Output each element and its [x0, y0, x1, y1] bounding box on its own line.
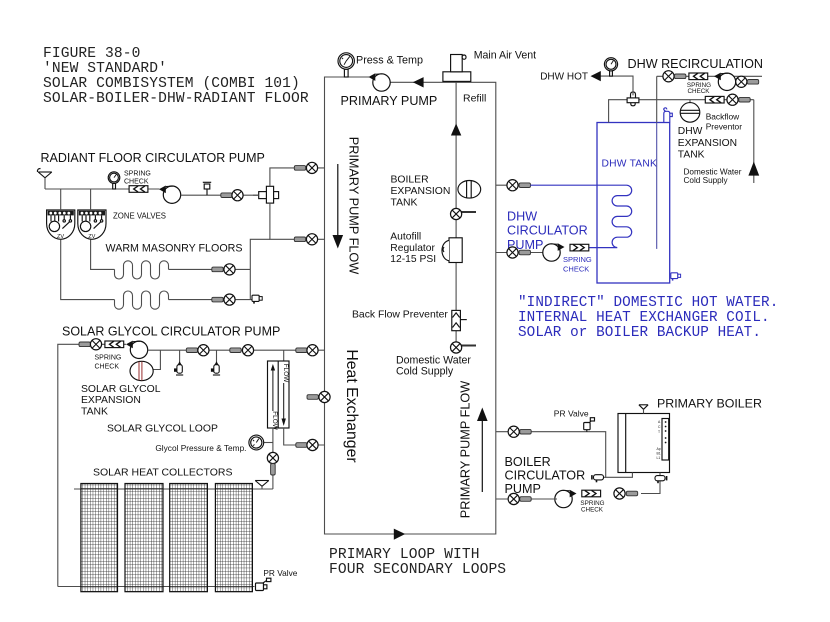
svg-text:EXPANSION: EXPANSION	[678, 138, 737, 149]
pump: solar glycol circulator pump	[126, 341, 148, 359]
valve: boiler supply valve at loop	[508, 426, 531, 437]
arrow: refill flow up	[451, 124, 461, 136]
drain valve at tank bottom (blue)	[671, 273, 681, 281]
svg-text:PRIMARY LOOP WITH: PRIMARY LOOP WITH	[329, 547, 480, 563]
pipe: DHW HOT branch	[601, 76, 634, 95]
pipe: drop to solar expansion tank	[153, 350, 160, 369]
pipe: boiler supply from loop	[496, 432, 633, 478]
boiler expansion tank	[458, 181, 481, 199]
tee fitting on DHW hot	[627, 92, 639, 106]
svg-text:FOUR SECONDARY LOOPS: FOUR SECONDARY LOOPS	[329, 562, 506, 578]
svg-text:DHW: DHW	[678, 126, 703, 137]
fitting: radiant junction union	[253, 186, 279, 203]
svg-text:Cold Supply: Cold Supply	[684, 176, 729, 185]
pump: primary pump U1	[369, 73, 391, 91]
valve: DHW return valve	[507, 247, 531, 258]
valve: domestic water cold supply valve on refill	[451, 342, 477, 353]
svg-text:SPRING: SPRING	[124, 171, 151, 178]
spring check valve (solar)	[105, 341, 124, 348]
svg-text:DHW HOT: DHW HOT	[540, 72, 588, 83]
spring check valve (radiant)	[129, 186, 148, 193]
svg-text:Press & Temp: Press & Temp	[356, 55, 423, 67]
valve: recirc valve 1	[663, 71, 686, 82]
svg-text:PRIMARY PUMP: PRIMARY PUMP	[341, 94, 438, 108]
valve: radiant supply port valve at loop	[294, 234, 317, 245]
valve: heat exchanger bottom valve	[296, 439, 318, 450]
pipe: solar pump outlet to loop	[148, 349, 325, 351]
solar collector panel 1	[81, 484, 118, 592]
svg-text:SOLAR GLYCOL: SOLAR GLYCOL	[81, 384, 161, 395]
label: BOILER EXPANSION TANK	[391, 174, 451, 208]
valve: solar suction valve	[79, 339, 102, 350]
svg-text:EXPANSION: EXPANSION	[391, 186, 451, 197]
svg-text:Refill: Refill	[463, 93, 486, 105]
coil: internal heat exchanger coil (blue)	[530, 185, 631, 247]
spring check valve (cold supply)	[705, 96, 724, 103]
union fitting on boiler return	[655, 476, 667, 484]
pipe: ZV1 down to coil 2	[61, 240, 115, 300]
svg-text:PR Valve: PR Valve	[554, 408, 589, 418]
air vent funnel at collectors	[255, 481, 269, 490]
pipe: radiant supply main line	[45, 188, 160, 190]
pipe: riser from junction up to loop port	[270, 168, 325, 186]
solar collector panel 2	[125, 484, 163, 592]
svg-text:PR Valve: PR Valve	[263, 568, 297, 578]
label: SPRING CHECK (recirc)	[687, 82, 711, 95]
label: DHW CIRCULATOR PUMP	[507, 210, 588, 252]
svg-text:SPRING: SPRING	[95, 355, 122, 362]
arrow: flow toward pump on top edge	[413, 77, 424, 87]
svg-text:BOILER: BOILER	[505, 455, 551, 469]
label: DHW EXPANSION TANK	[678, 126, 737, 160]
svg-text:FLOW: FLOW	[282, 364, 289, 383]
pipe: primary loop rectangle	[325, 77, 496, 534]
spring check valve (DHW)	[570, 244, 589, 251]
label: Domestic Water Cold Supply (refill)	[396, 355, 471, 378]
pipe: lower header to coil riser	[250, 239, 270, 299]
svg-text:B1: B1	[657, 452, 661, 456]
pipe: refill line	[455, 82, 457, 353]
svg-text:SPRING: SPRING	[563, 255, 592, 264]
svg-text:Regulator: Regulator	[390, 243, 435, 254]
label: Autofill Regulator 12-15 PSI	[390, 232, 436, 265]
pipe: flow meter down to collectors	[272, 428, 274, 489]
label: Backflow Preventor	[706, 112, 743, 132]
valve: collector isolation valve (vertical)	[267, 452, 278, 475]
pipe: coil 1 to valve	[169, 268, 251, 270]
valve: radiant outlet gate valve	[221, 190, 243, 201]
DHW expansion tank	[680, 100, 700, 123]
pipe: domestic cold supply riser	[753, 100, 755, 183]
svg-text:Backflow: Backflow	[706, 112, 740, 122]
gauge: glycol pressure & temp	[249, 435, 273, 450]
svg-text:PRIMARY PUMP FLOW: PRIMARY PUMP FLOW	[459, 381, 473, 518]
svg-text:T: T	[658, 430, 660, 434]
pipe: ZV2 down to coil 1	[91, 240, 115, 270]
valve: radiant return port valve at loop	[294, 162, 317, 173]
svg-text:CIRCULATOR: CIRCULATOR	[507, 224, 588, 238]
valve: coil 2 balancing valve	[212, 294, 235, 305]
svg-text:SOLAR HEAT COLLECTORS: SOLAR HEAT COLLECTORS	[93, 466, 232, 478]
pipe: recirculation drop into tank (dip tube)	[656, 76, 658, 122]
arrow: primary pump flow down	[333, 164, 344, 249]
valve: cold supply valve	[727, 94, 750, 105]
coil: warm masonry floor coil 1	[115, 261, 169, 279]
arrow: flow meter up arrow	[271, 364, 275, 411]
svg-text:TANK: TANK	[391, 197, 418, 208]
label: SPRING CHECK (radiant)	[124, 171, 151, 186]
svg-text:TANK: TANK	[678, 149, 705, 160]
valve: recirc valve 2	[736, 76, 759, 87]
coil: warm masonry floor coil 2	[115, 291, 169, 309]
PR valve at collectors	[256, 578, 271, 590]
valve: solar line valve 2	[230, 345, 254, 356]
arrow: flow on loop bottom edge	[394, 529, 405, 540]
label: BOILER CIRCULATOR PUMP	[505, 455, 586, 496]
pipe: coil 2 to valve and drain	[169, 299, 253, 301]
air vent funnel on radiant line	[37, 169, 51, 190]
svg-text:Preventor: Preventor	[706, 122, 743, 132]
svg-text:ZV: ZV	[57, 234, 64, 240]
PR valve on boiler supply	[584, 418, 595, 432]
svg-text:SOLAR GLYCOL LOOP: SOLAR GLYCOL LOOP	[107, 423, 218, 434]
pipe: boiler pump suction from loop	[496, 498, 557, 500]
solar collector panel 4	[215, 484, 252, 592]
valve: small lever valve on radiant outlet	[203, 182, 211, 195]
svg-text:SOLAR or BOILER BACKUP HEAT.: SOLAR or BOILER BACKUP HEAT.	[518, 325, 761, 341]
svg-text:PUMP: PUMP	[505, 482, 541, 496]
svg-text:SOLAR GLYCOL CIRCULATOR PUMP: SOLAR GLYCOL CIRCULATOR PUMP	[62, 324, 280, 338]
svg-text:EXPANSION: EXPANSION	[81, 395, 141, 406]
svg-text:BOILER: BOILER	[391, 174, 430, 185]
svg-text:TANK: TANK	[81, 407, 108, 418]
label: SPRING CHECK (boiler)	[580, 500, 604, 514]
autofill regulator symbol	[442, 238, 462, 263]
pipe: flow meter bottom to loop	[284, 428, 325, 445]
svg-text:CHECK: CHECK	[124, 178, 149, 185]
svg-text:WARM MASONRY FLOORS: WARM MASONRY FLOORS	[106, 242, 243, 254]
svg-text:PRIMARY BOILER: PRIMARY BOILER	[657, 396, 762, 410]
valve: refill isolation valve	[451, 208, 477, 219]
svg-text:CHECK: CHECK	[563, 265, 589, 274]
spring check valve (recirc)	[689, 73, 708, 80]
label: SOLAR GLYCOL EXPANSION TANK	[81, 384, 161, 418]
pump: radiant floor circulator pump	[159, 186, 181, 204]
caption: primary loop with four secondary loops	[329, 547, 506, 578]
svg-text:Heat Exchanger: Heat Exchanger	[343, 349, 360, 462]
valve: heat exchanger mid valve on loop edge	[307, 391, 330, 402]
pump: DHW circulator pump	[543, 243, 565, 261]
gauge: radiant spring check gauge	[108, 172, 120, 189]
pipe: recirculation line	[657, 75, 762, 77]
title: figure caption	[43, 46, 309, 107]
backflow preventer symbol on refill	[452, 310, 467, 330]
svg-text:'NEW STANDARD': 'NEW STANDARD'	[43, 61, 167, 77]
svg-text:Ap: Ap	[657, 447, 661, 451]
air vent funnel on boiler top	[639, 405, 648, 414]
svg-text:DHW TANK: DHW TANK	[602, 159, 658, 170]
svg-text:Glycol Pressure & Temp.: Glycol Pressure & Temp.	[155, 443, 246, 453]
solar glycol expansion tank	[130, 361, 153, 380]
arrow: primary pump flow up	[477, 408, 488, 493]
arrow: cold supply flow up	[748, 162, 759, 176]
pipe: tank top to DHW HOT header	[609, 100, 754, 123]
svg-text:DHW: DHW	[507, 210, 537, 224]
DHW tank body	[597, 123, 670, 284]
arrow: flow meter down arrow	[282, 383, 286, 426]
pipe: ZV2 top connection	[90, 189, 92, 210]
svg-text:CHECK: CHECK	[95, 364, 120, 371]
svg-text:FLOW: FLOW	[271, 411, 278, 430]
drain valve at coil 2 end	[252, 295, 262, 303]
boiler body	[618, 414, 670, 473]
valve: boiler pump suction valve	[508, 493, 531, 504]
gauge: DHW hot gauge	[604, 58, 617, 76]
flow meter body	[268, 361, 290, 428]
pipe: collectors bottom header	[58, 586, 255, 588]
pipe: boiler return to pump	[641, 473, 660, 494]
pump: boiler circulator pump	[555, 490, 577, 508]
pump: DHW recirculation pump	[714, 73, 736, 91]
valve: boiler return valve	[614, 488, 638, 499]
svg-text:SOLAR-BOILER-DHW-RADIANT FLOOR: SOLAR-BOILER-DHW-RADIANT FLOOR	[43, 91, 309, 107]
union fitting on boiler supply drain	[592, 475, 604, 483]
aquastat clip on tank top (blue)	[664, 108, 673, 123]
svg-text:RADIANT FLOOR CIRCULATOR PUMP: RADIANT FLOOR CIRCULATOR PUMP	[41, 151, 265, 165]
svg-text:ZONE VALVES: ZONE VALVES	[113, 212, 166, 221]
valve: solar line valve 1	[186, 345, 209, 356]
zone valve ZV2	[78, 210, 106, 240]
pipe: collectors top header	[74, 488, 273, 490]
pipe: junction down to lower header	[270, 203, 325, 239]
valve: DHW supply valve	[507, 180, 531, 191]
svg-text:CHECK: CHECK	[581, 506, 604, 513]
note: indirect domestic hot water (blue CAD)	[518, 295, 778, 341]
svg-text:Back Flow Preventer: Back Flow Preventer	[352, 310, 448, 321]
svg-text:"INDIRECT" DOMESTIC HOT WATER.: "INDIRECT" DOMESTIC HOT WATER.	[518, 295, 778, 311]
svg-text:L1: L1	[657, 456, 661, 460]
label: SPRING CHECK (DHW, blue)	[563, 255, 592, 274]
spring check valve (boiler)	[582, 490, 601, 497]
pipe: solar return riser (left)	[58, 344, 126, 586]
pipe: tee down to flow meter	[283, 350, 285, 361]
gauge: press & temp	[338, 53, 354, 77]
svg-text:PRIMARY PUMP FLOW: PRIMARY PUMP FLOW	[347, 137, 361, 274]
sensor well 1 on solar line	[174, 350, 183, 375]
label: SPRING CHECK (solar)	[95, 355, 122, 371]
svg-text:CIRCULATOR: CIRCULATOR	[505, 469, 586, 483]
svg-text:Cold Supply: Cold Supply	[396, 365, 454, 377]
pipe: ZV1 top connection	[60, 189, 62, 210]
svg-text:Autofill: Autofill	[390, 232, 421, 243]
svg-text:SOLAR COMBISYSTEM (COMBI 101): SOLAR COMBISYSTEM (COMBI 101)	[43, 76, 300, 92]
arrow: DHW HOT direction	[591, 71, 601, 81]
valve: solar supply at loop	[296, 345, 318, 356]
svg-text:CHECK: CHECK	[687, 88, 710, 95]
svg-text:Main Air Vent: Main Air Vent	[474, 50, 536, 62]
solar collector panel 3	[170, 484, 208, 592]
sensor well 2 on solar line	[211, 350, 220, 375]
svg-text:DHW RECIRCULATION: DHW RECIRCULATION	[628, 57, 764, 71]
svg-text:INTERNAL HEAT EXCHANGER COIL.: INTERNAL HEAT EXCHANGER COIL.	[518, 310, 770, 326]
pipe: DHW supply from loop to coil	[496, 184, 531, 186]
zone valve ZV1	[47, 210, 75, 240]
svg-text:12-15 PSI: 12-15 PSI	[390, 254, 436, 265]
pipe: radiant pump outlet	[181, 194, 259, 196]
air vent: main air vent body	[443, 55, 471, 82]
svg-text:FIGURE 38-0: FIGURE 38-0	[43, 46, 140, 62]
svg-text:ZV: ZV	[88, 234, 95, 240]
valve: coil 1 balancing valve	[212, 264, 235, 275]
pipe: DHW return from loop to pump	[496, 252, 545, 254]
label: Domestic Water Cold Supply	[684, 167, 742, 184]
